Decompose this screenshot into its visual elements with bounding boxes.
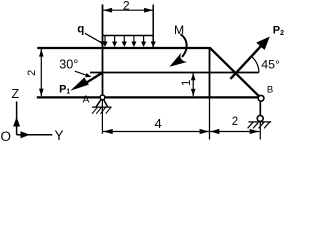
svg-text:2: 2 (26, 70, 38, 76)
svg-text:1: 1 (181, 80, 193, 86)
svg-text:q: q (77, 23, 84, 35)
svg-text:30°: 30° (59, 58, 78, 72)
svg-text:O: O (1, 129, 12, 142)
svg-text:45°: 45° (261, 58, 280, 72)
svg-text:4: 4 (155, 116, 162, 131)
svg-text:Z: Z (12, 87, 20, 101)
svg-text:Y: Y (55, 128, 64, 142)
svg-text:2: 2 (232, 116, 238, 128)
svg-text:A: A (83, 95, 90, 106)
svg-text:B: B (267, 84, 273, 95)
svg-text:2: 2 (123, 0, 130, 12)
